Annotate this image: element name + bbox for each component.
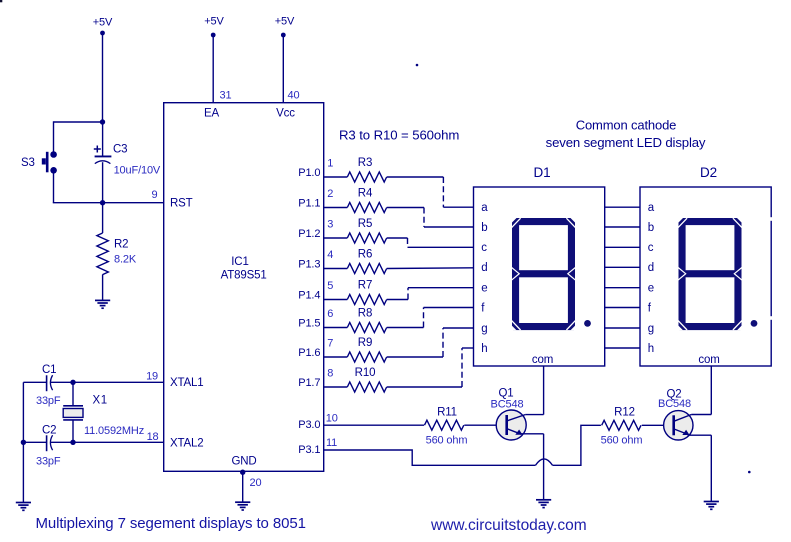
- svg-text:BC548: BC548: [491, 398, 524, 410]
- svg-text:3: 3: [327, 219, 333, 231]
- svg-text:P3.1: P3.1: [298, 444, 320, 456]
- resistor R12: [601, 406, 643, 446]
- svg-text:R3: R3: [358, 157, 372, 169]
- svg-text:com: com: [532, 354, 553, 366]
- svg-text:5: 5: [327, 280, 333, 292]
- wire GND pin to ground: [242, 472, 244, 502]
- svg-text:R8: R8: [358, 308, 372, 320]
- svg-text:+5V: +5V: [204, 16, 224, 28]
- svg-text:560 ohm: 560 ohm: [426, 435, 468, 447]
- op-amp IC1 AT89S51 body: [164, 103, 324, 472]
- display D2 body: [640, 187, 771, 366]
- resistor R9: [324, 337, 387, 362]
- resistor R3: [324, 157, 387, 182]
- crystal X1: [63, 382, 144, 442]
- junction node reset top: [100, 119, 105, 124]
- ground below Q2: [704, 502, 719, 510]
- svg-text:10uF/10V: 10uF/10V: [114, 165, 161, 177]
- wire Q2 emitter to ground: [688, 435, 712, 501]
- capacitor C3: [94, 120, 161, 203]
- svg-text:d: d: [648, 262, 654, 274]
- svg-text:R5: R5: [358, 218, 372, 230]
- svg-text:g: g: [648, 323, 654, 335]
- wire +5V to EA pin 31: [212, 35, 214, 103]
- svg-text:P1.3: P1.3: [298, 259, 320, 271]
- wire RST to IC pin 9: [103, 202, 164, 204]
- svg-text:20: 20: [250, 477, 262, 489]
- svg-text:560 ohm: 560 ohm: [601, 435, 643, 447]
- junction node XTAL1: [70, 380, 75, 385]
- svg-text:R10: R10: [355, 367, 376, 379]
- svg-text:RST: RST: [170, 198, 193, 210]
- svg-text:d: d: [481, 262, 487, 274]
- resistor R7: [324, 280, 387, 305]
- svg-text:11: 11: [326, 437, 337, 449]
- svg-text:P1.5: P1.5: [298, 318, 320, 330]
- svg-text:R2: R2: [114, 239, 128, 251]
- svg-text:h: h: [481, 343, 487, 355]
- svg-text:P3.0: P3.0: [298, 419, 320, 431]
- svg-text:P1.1: P1.1: [298, 198, 320, 210]
- wire left rail: [22, 382, 24, 502]
- svg-text:+5V: +5V: [93, 17, 113, 29]
- wire D1 com to Q1 collector: [525, 366, 543, 415]
- transistor Q1 BC548: [491, 387, 527, 440]
- svg-text:8.2K: 8.2K: [114, 254, 137, 266]
- switch S3: [21, 151, 57, 173]
- svg-text:XTAL2: XTAL2: [170, 437, 204, 449]
- svg-text:X1: X1: [93, 395, 108, 407]
- svg-text:10: 10: [326, 412, 338, 424]
- wire Q1 emitter to ground: [521, 434, 544, 500]
- svg-text:R3 to R10 = 560ohm: R3 to R10 = 560ohm: [339, 128, 459, 143]
- resistor R4: [324, 188, 387, 213]
- wire R3 to segment a: [387, 177, 474, 207]
- wire R4 to segment b: [387, 208, 474, 228]
- svg-text:Common cathode: Common cathode: [576, 118, 677, 133]
- wire R12 to Q2 base: [642, 424, 664, 426]
- wire switch branch top vertical: [53, 121, 55, 151]
- wire R5 to segment c: [387, 238, 474, 247]
- svg-text:IC1: IC1: [231, 256, 248, 268]
- resistor R8: [324, 308, 387, 333]
- wire R2 to ground: [102, 275, 104, 301]
- capacitor C2: [23, 425, 73, 468]
- svg-text:e: e: [648, 283, 654, 295]
- transistor Q2 BC548: [658, 389, 693, 440]
- junction node RST: [100, 200, 105, 205]
- display D1 body: [474, 187, 605, 366]
- svg-text:c: c: [648, 242, 654, 254]
- wire junction to switch branch top: [54, 121, 103, 123]
- svg-text:a: a: [481, 202, 488, 214]
- svg-text:33pF: 33pF: [36, 456, 61, 468]
- svg-text:D1: D1: [534, 165, 551, 180]
- svg-text:6: 6: [327, 308, 333, 320]
- svg-text:www.circuitstoday.com: www.circuitstoday.com: [430, 517, 587, 534]
- resistor R11: [424, 406, 467, 446]
- wire R7 to segment e: [387, 288, 474, 300]
- svg-text:R11: R11: [437, 406, 457, 418]
- svg-text:C2: C2: [42, 425, 56, 437]
- display D2 digit 8: [678, 218, 757, 330]
- svg-text:g: g: [481, 323, 487, 335]
- svg-text:18: 18: [147, 431, 159, 443]
- svg-text:a: a: [648, 202, 655, 214]
- svg-text:P1.6: P1.6: [298, 347, 320, 359]
- wire R6 to segment d: [387, 267, 474, 270]
- svg-text:P1.4: P1.4: [298, 290, 320, 302]
- wire P3.0 to R11: [324, 424, 424, 426]
- capacitor C1: [23, 364, 73, 407]
- wire +5V to reset junction: [102, 33, 104, 122]
- svg-text:R9: R9: [358, 337, 372, 349]
- resistor R5: [324, 218, 387, 243]
- ground below IC: [235, 502, 250, 510]
- svg-text:33pF: 33pF: [36, 395, 61, 407]
- resistor R6: [324, 249, 387, 274]
- svg-text:Multiplexing 7 segement displa: Multiplexing 7 segement displays to 8051: [36, 515, 306, 532]
- ground left rail: [16, 503, 31, 511]
- svg-text:C1: C1: [42, 364, 56, 376]
- svg-text:9: 9: [152, 189, 158, 201]
- svg-text:BC548: BC548: [658, 398, 691, 410]
- wire R11 to Q1 base: [464, 424, 496, 426]
- svg-text:R4: R4: [358, 188, 373, 200]
- svg-text:4: 4: [327, 249, 333, 261]
- svg-text:com: com: [698, 354, 719, 366]
- svg-text:40: 40: [288, 90, 300, 102]
- svg-text:R7: R7: [358, 280, 372, 292]
- wire +5V to Vcc pin 40: [282, 35, 284, 103]
- wire R9 to segment g: [387, 328, 474, 357]
- resistor R10: [324, 367, 387, 392]
- svg-text:31: 31: [220, 90, 232, 102]
- junction node XTAL2: [70, 440, 75, 445]
- svg-text:AT89S51: AT89S51: [221, 270, 267, 282]
- svg-text:Vcc: Vcc: [276, 108, 295, 120]
- svg-text:P1.2: P1.2: [298, 228, 320, 240]
- wire switch branch bottom horizontal: [53, 202, 103, 204]
- stray dot right of Q2: [748, 471, 751, 474]
- svg-text:P1.0: P1.0: [298, 167, 320, 179]
- wire P3.1 to R12 riser (with hop over Q1 emitter): [324, 425, 601, 465]
- node +5V (Vcc): [275, 16, 295, 38]
- svg-text:R6: R6: [358, 249, 372, 261]
- ground below Q1: [536, 500, 551, 508]
- junction node left rail: [21, 440, 26, 445]
- svg-text:8: 8: [327, 368, 333, 380]
- stray corner mark: [0, 0, 2, 2]
- node +5V (reset rail): [93, 17, 113, 36]
- svg-text:11.0592MHz: 11.0592MHz: [84, 425, 144, 437]
- svg-text:D2: D2: [700, 165, 717, 180]
- stray dot near top: [416, 64, 419, 67]
- svg-text:seven segment LED display: seven segment LED display: [546, 135, 706, 150]
- resistor R2: [97, 203, 137, 275]
- display D2 right edge artifacts (white gaps): [769, 217, 772, 221]
- svg-text:GND: GND: [231, 456, 256, 468]
- wire switch to branch bottom: [53, 173, 55, 202]
- svg-text:b: b: [648, 222, 654, 234]
- svg-text:h: h: [648, 343, 654, 355]
- svg-text:c: c: [481, 242, 487, 254]
- wire XTAL2 to IC pin 18: [73, 441, 164, 443]
- wire XTAL1 to IC pin 19: [73, 381, 164, 383]
- node +5V (EA): [204, 16, 224, 38]
- svg-text:7: 7: [327, 338, 333, 350]
- svg-text:C3: C3: [113, 144, 127, 156]
- svg-text:S3: S3: [21, 157, 35, 169]
- svg-text:+5V: +5V: [275, 16, 295, 28]
- wire R10 to segment h: [387, 348, 474, 387]
- svg-text:1: 1: [327, 158, 333, 170]
- svg-text:P1.7: P1.7: [298, 377, 320, 389]
- ground below R2: [95, 300, 110, 308]
- wire R8 to segment f: [387, 308, 474, 328]
- svg-text:b: b: [481, 222, 487, 234]
- wires D1 to D2 segment bus: [605, 207, 640, 348]
- svg-text:R12: R12: [614, 406, 635, 418]
- svg-text:19: 19: [146, 371, 158, 383]
- svg-text:e: e: [481, 283, 487, 295]
- svg-text:EA: EA: [204, 108, 220, 120]
- node GND pin 20: [240, 470, 245, 475]
- heading Common cathode seven segment LED display: [546, 118, 706, 150]
- svg-text:XTAL1: XTAL1: [170, 377, 204, 389]
- wire D2 com to Q2 collector: [691, 366, 711, 415]
- display D1 digit 8: [512, 218, 591, 330]
- svg-text:2: 2: [327, 188, 333, 200]
